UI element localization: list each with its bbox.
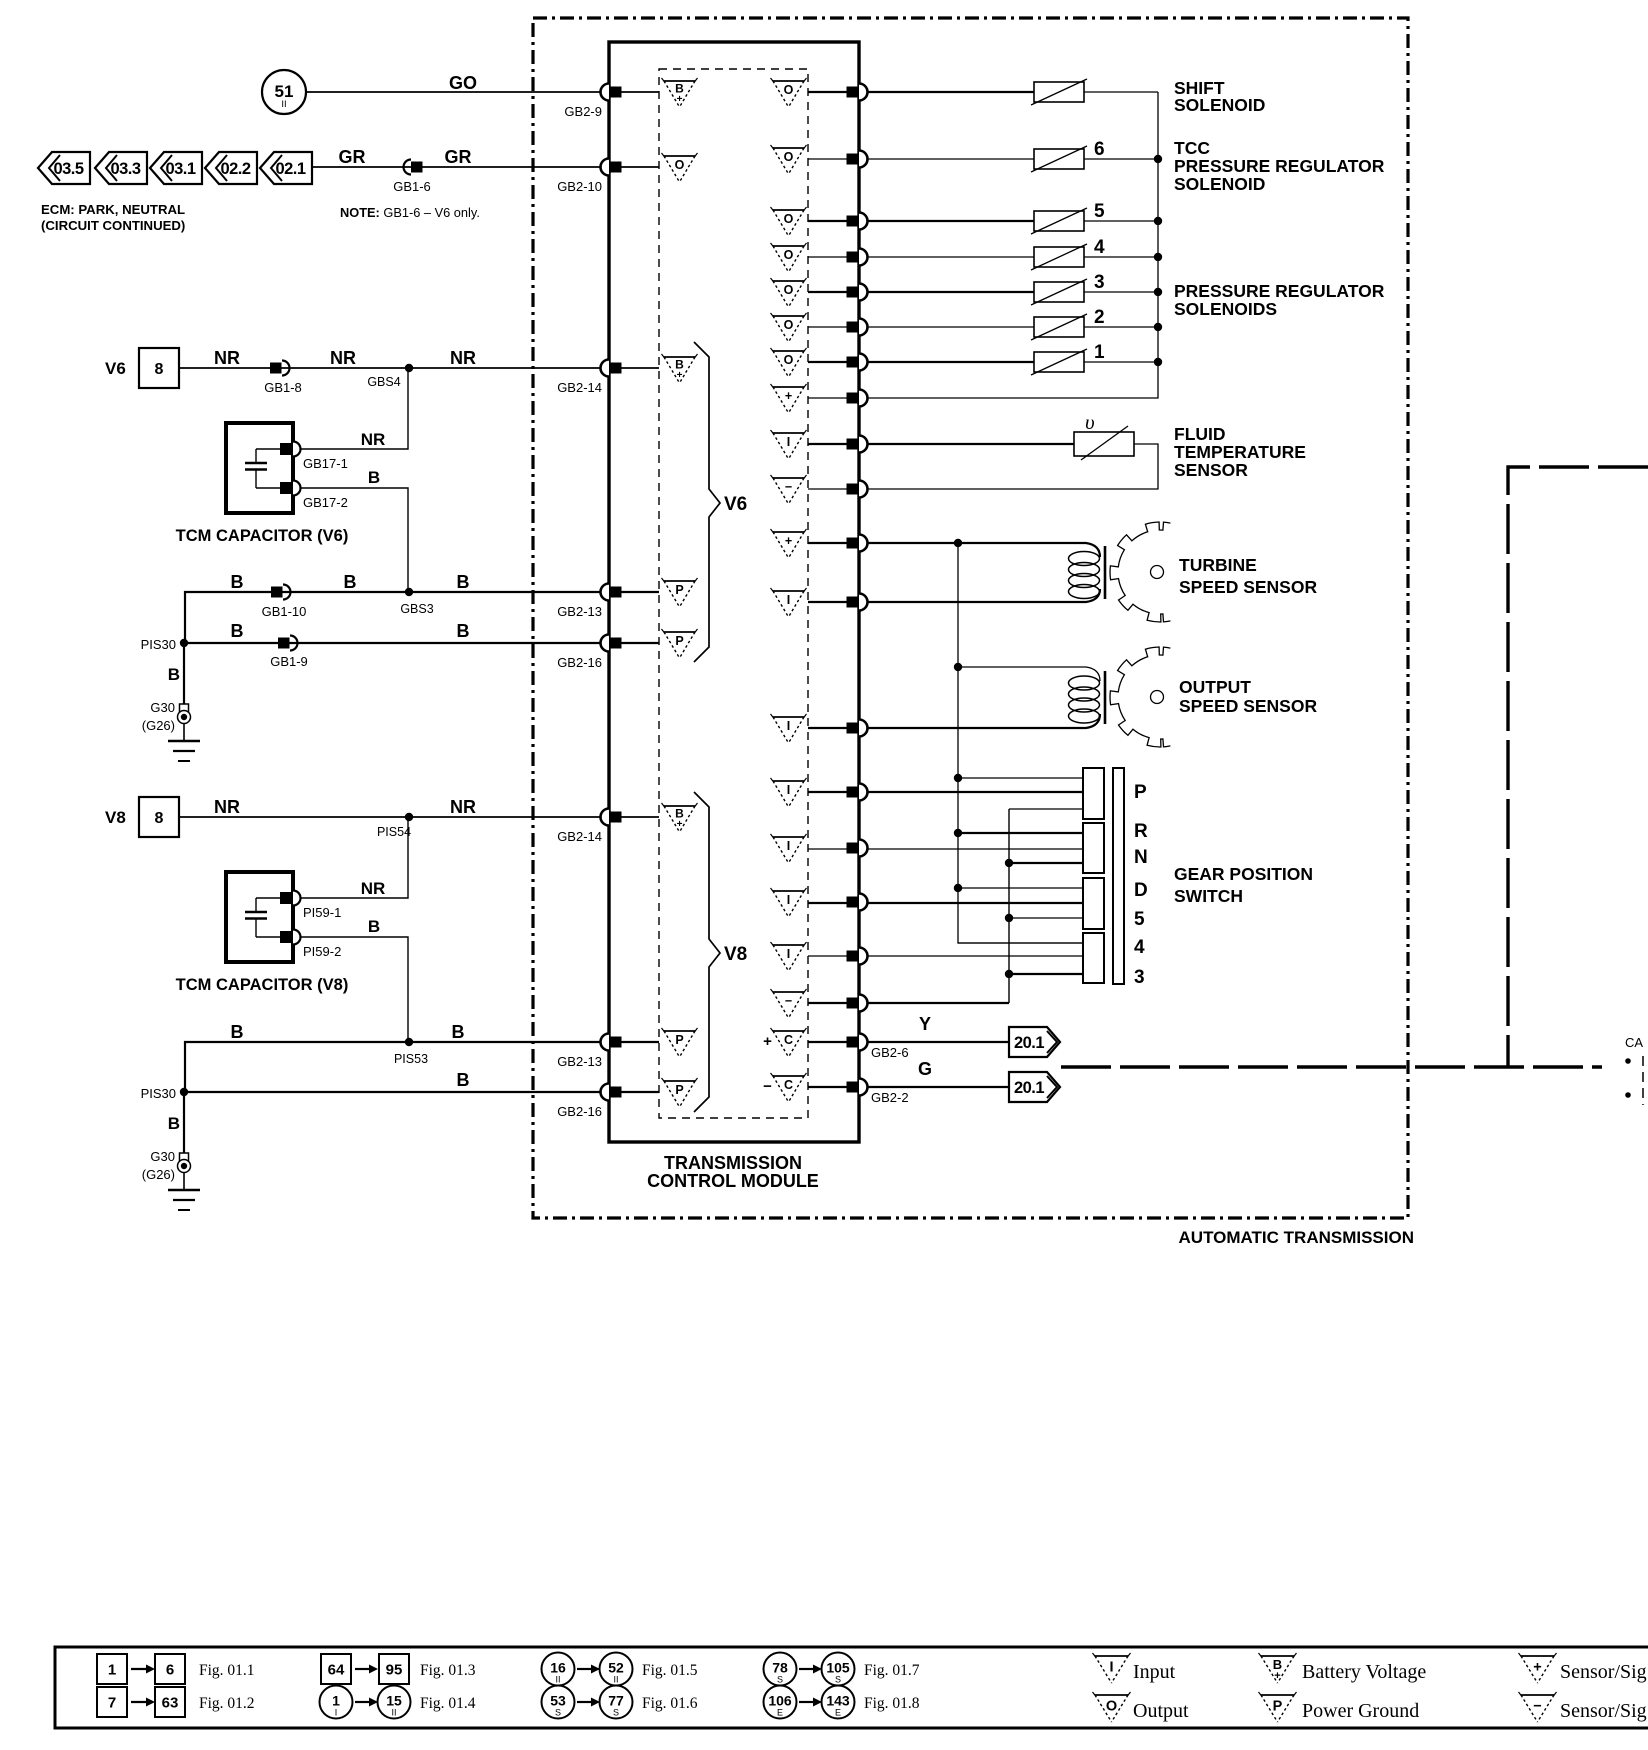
svg-text:CA: CA <box>1625 1035 1643 1050</box>
svg-text:77: 77 <box>608 1693 624 1709</box>
svg-text:B: B <box>368 917 380 936</box>
svg-text:B: B <box>344 572 357 592</box>
svg-text:B: B <box>452 1022 465 1042</box>
wire solenoid row 4 <box>808 256 1034 258</box>
shield bus 2 <box>1008 809 1010 1003</box>
svg-text:PI59-2: PI59-2 <box>303 944 341 959</box>
svg-text:TCC: TCC <box>1174 138 1210 158</box>
svg-text:I: I <box>787 435 790 449</box>
output symbol y327 <box>771 313 807 342</box>
TCM pin right y902 <box>847 894 868 911</box>
svg-text:II: II <box>613 1675 618 1685</box>
svg-text:+: + <box>1533 1660 1541 1676</box>
TCM pin right y728 <box>847 720 868 737</box>
wire NR PI59-1 to PIS54 <box>300 817 408 898</box>
node bus2 junction y918 <box>1005 914 1013 922</box>
svg-text:O: O <box>675 158 685 172</box>
label SHIFT SOLENOID <box>1174 78 1265 115</box>
svg-text:Fig. 01.3: Fig. 01.3 <box>420 1662 476 1679</box>
wire NR GB17-1 to GBS4 <box>300 368 408 449</box>
wire solenoid row 6 right <box>1084 326 1158 328</box>
svg-text:TEMPERATURE: TEMPERATURE <box>1174 442 1306 462</box>
output sensor coil L2 <box>1069 671 1106 724</box>
svg-text:+: + <box>677 370 683 381</box>
svg-text:PIS53: PIS53 <box>394 1052 428 1066</box>
svg-text:TRANSMISSION: TRANSMISSION <box>664 1153 802 1173</box>
svg-text:−: − <box>785 994 792 1008</box>
legend symbol Battery Voltage <box>1259 1653 1427 1683</box>
TCM pin GB2-16 <box>557 1084 621 1120</box>
sensor shield bus 1 <box>958 543 1083 943</box>
input symbol y956 <box>771 942 807 971</box>
reference tag 02.1 <box>260 152 312 184</box>
svg-text:NR: NR <box>361 430 386 449</box>
node solenoid bus junction y159 <box>1154 155 1162 163</box>
svg-text:Battery Voltage: Battery Voltage <box>1302 1661 1426 1683</box>
TCM pin right y159 <box>847 151 868 168</box>
node bus2 junction y974 <box>1005 970 1013 978</box>
svg-text:GB2-14: GB2-14 <box>557 829 602 844</box>
svg-text:GB2-13: GB2-13 <box>557 1054 602 1069</box>
reference tag 03.3 <box>95 152 147 184</box>
svg-text:SENSOR: SENSOR <box>1174 460 1248 480</box>
ground G30 (G26) V6 <box>142 643 200 761</box>
solenoid 5 symbol <box>1031 201 1105 234</box>
svg-text:E: E <box>835 1708 841 1718</box>
battery voltage symbol GB2-14 V8 <box>662 803 698 832</box>
output symbol y362 <box>771 348 807 377</box>
svg-text:I: I <box>787 893 790 907</box>
svg-text:Fig. 01.8: Fig. 01.8 <box>864 1695 920 1712</box>
svg-text:S: S <box>613 1708 619 1718</box>
svg-text:GB2-2: GB2-2 <box>871 1090 909 1105</box>
wire NR V6 feed to GB2-14 <box>179 367 659 369</box>
wire fluid temp sensor return <box>808 444 1158 489</box>
svg-text:PI59-1: PI59-1 <box>303 905 341 920</box>
node solenoid bus junction y292 <box>1154 288 1162 296</box>
svg-text:GBS3: GBS3 <box>400 602 433 616</box>
svg-text:6: 6 <box>1094 139 1105 160</box>
svg-text:−: − <box>1533 1699 1541 1715</box>
svg-text:SOLENOIDS: SOLENOIDS <box>1174 299 1277 319</box>
svg-text:GB1-6: GB1-6 <box>393 179 431 194</box>
svg-text:Fig. 01.5: Fig. 01.5 <box>642 1662 698 1679</box>
wire solenoid row 1 right <box>1084 91 1158 93</box>
reference tag 20.1 (G) <box>1009 1072 1060 1102</box>
svg-text:Sensor/Sig: Sensor/Sig <box>1560 1661 1647 1683</box>
connector GB1-8 <box>264 361 302 396</box>
CAN bus long-dash line horizontal <box>1061 1065 1602 1068</box>
svg-text:FLUID: FLUID <box>1174 424 1226 444</box>
svg-text:3: 3 <box>1134 967 1145 988</box>
V8 variant bracket <box>694 792 747 1112</box>
sensor/signal + symbol y398 <box>771 384 807 413</box>
svg-text:−: − <box>763 1078 772 1095</box>
output reluctor gear wheel <box>1110 647 1170 747</box>
wire GO circle51 to GB2-9 <box>306 91 659 93</box>
svg-text:P: P <box>675 634 683 648</box>
svg-text:(G26): (G26) <box>142 718 175 733</box>
svg-text:NR: NR <box>450 797 476 817</box>
node GBS3 <box>405 588 413 596</box>
legend row 2 figure references <box>97 1686 920 1719</box>
node shield bus junction y778 <box>954 774 962 782</box>
node solenoid bus junction y257 <box>1154 253 1162 261</box>
node PIS53 <box>405 1038 413 1046</box>
TCM capacitor C1 (V6) <box>176 423 349 545</box>
sensor/signal + symbol y543 <box>771 529 807 558</box>
svg-text:O: O <box>784 283 794 297</box>
gear position switch S1 contacts <box>1083 768 1124 984</box>
svg-text:SOLENOID: SOLENOID <box>1174 95 1265 115</box>
svg-text:C: C <box>784 1033 793 1047</box>
svg-text:NR: NR <box>214 797 240 817</box>
solenoid 4 symbol <box>1031 237 1105 270</box>
TCM pin GB2-2 <box>847 1079 909 1106</box>
legend symbol Input <box>1093 1653 1176 1683</box>
svg-text:C: C <box>784 1078 793 1092</box>
TCM pin right y792 <box>847 784 868 801</box>
svg-text:1: 1 <box>108 1662 116 1679</box>
svg-text:8: 8 <box>155 361 164 378</box>
input symbol y848 <box>771 834 807 863</box>
node solenoid bus junction y362 <box>1154 358 1162 366</box>
TCM pin right y956 <box>847 948 868 965</box>
output symbol y221 <box>771 207 807 236</box>
svg-text:O: O <box>784 83 794 97</box>
power ground symbol GB2-16 V8 <box>662 1078 698 1107</box>
wire solenoid row 5 right <box>1084 291 1158 293</box>
svg-text:TCM CAPACITOR (V8): TCM CAPACITOR (V8) <box>176 976 349 994</box>
legend symbol Sensor/Sig - <box>1519 1692 1647 1722</box>
wire gear switch 4 top <box>958 942 1083 944</box>
svg-text:GO: GO <box>449 73 477 93</box>
reference tag 20.1 (Y) <box>1009 1027 1060 1057</box>
svg-text:+: + <box>785 534 792 548</box>
node shield bus junction y833 <box>954 829 962 837</box>
TCM pin GB2-13 <box>557 584 621 620</box>
output symbol y257 <box>771 243 807 272</box>
svg-text:II: II <box>281 99 286 110</box>
svg-text:I: I <box>787 719 790 733</box>
svg-text:PIS54: PIS54 <box>377 825 411 839</box>
node solenoid bus junction y221 <box>1154 217 1162 225</box>
solenoid 1 symbol <box>1031 342 1105 375</box>
wire B PIS30 to GB2-16 (V8) <box>184 1091 659 1093</box>
fuse box 8 (V8) <box>139 797 179 837</box>
svg-text:Fig. 01.6: Fig. 01.6 <box>642 1695 698 1712</box>
svg-text:GB1-9: GB1-9 <box>270 654 308 669</box>
TCM pin right y543 <box>847 535 868 552</box>
svg-text:I: I <box>335 1708 338 1718</box>
shift solenoid coil symbol <box>1031 79 1087 105</box>
svg-text:V8: V8 <box>724 944 747 965</box>
wire B to GB2-13 (V8) <box>185 1042 659 1092</box>
svg-text:B: B <box>168 1114 180 1133</box>
svg-text:NR: NR <box>450 348 476 368</box>
turbine reluctor gear wheel <box>1110 522 1170 622</box>
wire GR tags to GB2-10 <box>312 166 659 168</box>
svg-text:NR: NR <box>214 348 240 368</box>
svg-text:O: O <box>784 353 794 367</box>
label GEAR POSITION SWITCH <box>1174 864 1313 906</box>
svg-text:PIS30: PIS30 <box>141 1086 176 1101</box>
svg-text:95: 95 <box>386 1662 403 1679</box>
svg-text:GB2-13: GB2-13 <box>557 604 602 619</box>
TCM pin GB2-14 <box>557 809 621 845</box>
TCM pin GB2-9 <box>564 84 621 120</box>
svg-text:4: 4 <box>1094 237 1105 258</box>
input symbol y728 <box>771 714 807 743</box>
fluid temperature sensor (thermistor) <box>1074 410 1134 460</box>
wire gear switch P top <box>958 777 1083 779</box>
svg-text:NR: NR <box>361 879 386 898</box>
svg-text:O: O <box>784 150 794 164</box>
svg-text:1: 1 <box>1094 342 1105 363</box>
svg-text:03.1: 03.1 <box>165 160 195 178</box>
wire gear switch P bottom <box>1009 808 1083 810</box>
svg-text:(G26): (G26) <box>142 1167 175 1182</box>
svg-text:Power Ground: Power Ground <box>1302 1700 1419 1722</box>
svg-text:15: 15 <box>386 1693 402 1709</box>
svg-text:G30: G30 <box>150 700 175 715</box>
wire gear switch R mid <box>808 848 1083 850</box>
wire solenoid row 2 <box>808 158 1034 160</box>
legend row 1 figure references <box>97 1653 920 1686</box>
svg-text:Y: Y <box>919 1014 931 1034</box>
svg-text:5: 5 <box>1134 909 1145 930</box>
TCM pin right y444 <box>847 436 868 453</box>
svg-text:Output: Output <box>1133 1700 1189 1722</box>
wire B GB17-2 to GBS3 <box>300 488 408 592</box>
svg-text:S: S <box>555 1708 561 1718</box>
svg-text:105: 105 <box>826 1660 850 1676</box>
wire output sensor signal <box>808 714 1100 728</box>
svg-text:03.5: 03.5 <box>53 160 83 178</box>
TCM pin GB2-10 <box>557 159 621 195</box>
CAN bus long-dash line vertical+top <box>1508 467 1648 1067</box>
TCM pin GB2-16 <box>557 635 621 671</box>
TCM pin right y602 <box>847 594 868 611</box>
wire solenoid row 4 right <box>1084 256 1158 258</box>
wire G GB2-2 to 20.1 <box>808 1086 1009 1088</box>
svg-text:16: 16 <box>550 1660 566 1676</box>
label ECM: PARK, NEUTRAL (CIRCUIT CONTINUED) <box>41 202 185 233</box>
node PIS30 <box>180 639 188 647</box>
svg-text:V6: V6 <box>105 359 126 378</box>
svg-text:B: B <box>457 572 470 592</box>
node bus2 junction y863 <box>1005 859 1013 867</box>
svg-text:64: 64 <box>328 1662 345 1679</box>
svg-text:Input: Input <box>1133 1661 1176 1683</box>
svg-text:GB2-10: GB2-10 <box>557 179 602 194</box>
svg-text:P: P <box>675 1033 683 1047</box>
wire gear switch 4 bottom <box>1009 973 1083 975</box>
svg-text:GB1-10: GB1-10 <box>262 604 307 619</box>
node shield bus junction y888 <box>954 884 962 892</box>
svg-text:TURBINE: TURBINE <box>1179 555 1257 575</box>
TCM capacitor C2 (V8) <box>176 872 349 994</box>
CAN symbol y1042 <box>763 1028 806 1057</box>
node shield bus junction y667 <box>954 663 962 671</box>
wire turbine sensor + <box>808 543 1100 557</box>
input symbol y902 <box>771 888 807 917</box>
svg-text:O: O <box>784 318 794 332</box>
output symbol y292 <box>771 278 807 307</box>
svg-text:1: 1 <box>332 1693 340 1709</box>
output symbol y159 <box>771 145 807 174</box>
turbine sensor coil L1 <box>1069 546 1106 599</box>
svg-text:OUTPUT: OUTPUT <box>1179 677 1251 697</box>
CA legend fragment (cut off at edge) <box>1625 1035 1643 1105</box>
svg-text:O: O <box>784 212 794 226</box>
input symbol y792 <box>771 778 807 807</box>
svg-text:GR: GR <box>339 147 366 167</box>
svg-text:GB17-1: GB17-1 <box>303 456 348 471</box>
wire B PIS30 to GB2-16 (V6) <box>184 642 659 644</box>
wire solenoid row 6 <box>808 326 1034 328</box>
output symbol GB2-10 <box>662 153 698 182</box>
svg-text:PIS30: PIS30 <box>141 637 176 652</box>
power ground symbol GB2-13 V8 <box>662 1028 698 1057</box>
svg-text:+: + <box>677 94 683 105</box>
wire solenoid row 5 <box>808 291 1034 293</box>
svg-text:Fig. 01.2: Fig. 01.2 <box>199 1695 255 1712</box>
svg-text:G: G <box>918 1059 932 1079</box>
wire output sensor + <box>958 667 1100 681</box>
ground G30 (G26) V8 <box>142 1092 200 1210</box>
svg-text:20.1: 20.1 <box>1014 1034 1044 1052</box>
output symbol y92 <box>771 78 807 107</box>
node PIS54 <box>405 813 413 821</box>
wire fluid temp sensor feed <box>808 443 1074 445</box>
wire gear switch D mid <box>808 902 1083 904</box>
wire turbine sensor signal <box>808 589 1100 602</box>
svg-text:03.3: 03.3 <box>110 160 140 178</box>
wire gear switch D bottom <box>1009 917 1083 919</box>
svg-text:S: S <box>835 1675 841 1685</box>
svg-text:Fig. 01.7: Fig. 01.7 <box>864 1662 920 1679</box>
svg-text:GR: GR <box>445 147 472 167</box>
label OUTPUT SPEED SENSOR <box>1179 677 1317 716</box>
legend symbol Output <box>1093 1692 1190 1722</box>
svg-text:2: 2 <box>1094 307 1105 328</box>
svg-text:3: 3 <box>1094 272 1105 293</box>
TCM pin GB2-14 <box>557 360 621 396</box>
wire solenoid row 3 right <box>1084 220 1158 222</box>
svg-text:I: I <box>787 839 790 853</box>
reference tag 02.2 <box>205 152 257 184</box>
wire sensor ground row <box>808 1002 1009 1004</box>
reference tag 03.5 <box>38 152 90 184</box>
battery voltage symbol GB2-9 <box>662 78 698 107</box>
power ground symbol GB2-16 V6 <box>662 629 698 658</box>
svg-text:+: + <box>785 389 792 403</box>
svg-text:GB17-2: GB17-2 <box>303 495 348 510</box>
svg-text:R: R <box>1134 821 1148 842</box>
svg-text:I: I <box>1109 1660 1113 1676</box>
node PIS30 V8 <box>180 1088 188 1096</box>
TCM pin right y398 <box>847 390 868 407</box>
svg-text:+: + <box>677 819 683 830</box>
TCM pin GB2-6 <box>847 1034 909 1061</box>
svg-text:O: O <box>784 248 794 262</box>
svg-text:B: B <box>368 468 380 487</box>
svg-text:Fig. 01.1: Fig. 01.1 <box>199 1662 255 1679</box>
TCM pin right y1003 <box>847 995 868 1012</box>
connector circle 51 <box>262 70 306 114</box>
svg-text:I: I <box>787 593 790 607</box>
node turbine shield junction <box>954 539 962 547</box>
svg-text:N: N <box>1134 847 1148 868</box>
fuse box 8 (V6) <box>139 348 179 388</box>
svg-text:+: + <box>763 1033 772 1050</box>
svg-text:GB2-16: GB2-16 <box>557 1104 602 1119</box>
svg-text:GEAR POSITION: GEAR POSITION <box>1174 864 1313 884</box>
svg-text:PRESSURE REGULATOR: PRESSURE REGULATOR <box>1174 156 1385 176</box>
svg-text:4: 4 <box>1134 937 1145 958</box>
svg-text:GB2-6: GB2-6 <box>871 1045 909 1060</box>
svg-text:Fig. 01.4: Fig. 01.4 <box>420 1695 476 1712</box>
TCM pin right y292 <box>847 284 868 301</box>
svg-text:I: I <box>787 783 790 797</box>
connector GB1-6 <box>393 160 431 195</box>
svg-text:PRESSURE REGULATOR: PRESSURE REGULATOR <box>1174 281 1385 301</box>
TCM pin GB2-13 <box>557 1034 621 1070</box>
power ground symbol GB2-13 V6 <box>662 578 698 607</box>
label PRESSURE REGULATOR SOLENOIDS <box>1174 281 1385 319</box>
solenoid 3 symbol <box>1031 272 1105 305</box>
svg-text:−: − <box>785 480 792 494</box>
connector GB1-9 <box>270 636 308 670</box>
svg-text:78: 78 <box>772 1660 788 1676</box>
sensor/signal - symbol y489 <box>771 475 807 504</box>
svg-text:ECM: PARK, NEUTRAL: ECM: PARK, NEUTRAL <box>41 202 185 217</box>
wire gear switch 4 mid <box>808 955 1083 957</box>
wire gear switch D top <box>958 887 1083 889</box>
svg-text:NOTE: GB1-6 – V6 only.: NOTE: GB1-6 – V6 only. <box>340 205 480 220</box>
svg-text:+: + <box>1274 1670 1280 1682</box>
TCM inner dashed box <box>659 69 808 1118</box>
input symbol y444 <box>771 430 807 459</box>
TCM pin right y489 <box>847 481 868 498</box>
svg-text:5: 5 <box>1094 201 1105 222</box>
node solenoid bus junction y327 <box>1154 323 1162 331</box>
svg-text:II: II <box>391 1708 396 1718</box>
svg-text:143: 143 <box>826 1693 850 1709</box>
TCM pin right y92 <box>847 84 868 101</box>
sensor/signal - symbol y1003 <box>771 989 807 1018</box>
svg-text:O: O <box>1106 1699 1117 1715</box>
svg-text:S: S <box>777 1675 783 1685</box>
svg-text:GB2-14: GB2-14 <box>557 380 602 395</box>
svg-text:7: 7 <box>108 1695 116 1712</box>
solenoid 6 symbol <box>1031 139 1105 172</box>
input symbol y602 <box>771 588 807 617</box>
svg-text:NR: NR <box>330 348 356 368</box>
svg-text:02.1: 02.1 <box>275 160 305 178</box>
wire B PI59-2 to PIS53 <box>300 937 408 1042</box>
svg-text:D: D <box>1134 880 1148 901</box>
wire gear switch R bottom <box>1009 862 1083 864</box>
svg-text:53: 53 <box>550 1693 566 1709</box>
battery voltage symbol GB2-14 V6 <box>662 354 698 383</box>
svg-text:V8: V8 <box>105 808 126 827</box>
svg-text:E: E <box>777 1708 783 1718</box>
svg-text:02.2: 02.2 <box>220 160 250 178</box>
svg-text:SPEED SENSOR: SPEED SENSOR <box>1179 696 1317 716</box>
wire B to GB2-13 (V6) <box>185 592 659 643</box>
